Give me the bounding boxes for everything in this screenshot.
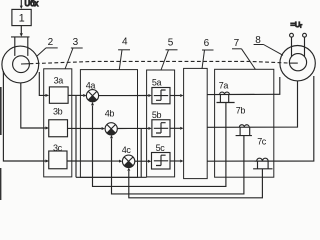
svg-text:7c: 7c — [257, 137, 267, 147]
group box 6 (amplifier) — [184, 68, 208, 178]
label 6 with leader — [202, 38, 214, 69]
svg-text:7: 7 — [234, 38, 240, 49]
feedback 7b to summer 4b — [110, 135, 244, 194]
machine 2 brush cap line — [11, 36, 30, 38]
wire block 6 to winding 7b and machine 8 centre lead — [207, 81, 297, 128]
winding 7a — [217, 80, 235, 102]
label 5 with leader — [161, 38, 178, 71]
svg-text:5b: 5b — [152, 110, 162, 120]
summer 4a — [86, 80, 99, 101]
branch wire from 3a output down — [75, 95, 77, 177]
machine 8 outer circle (generator) — [280, 46, 315, 81]
box 5b with relay symbol — [152, 110, 170, 137]
group box 7 (feedback windings) — [215, 69, 274, 177]
machine 8 brush leads — [292, 37, 305, 56]
winding 7c — [253, 137, 272, 169]
feedback 7c to summer 4c — [127, 168, 262, 198]
box 3a — [49, 76, 68, 104]
svg-text:5: 5 — [168, 38, 174, 49]
svg-text:4a: 4a — [86, 80, 96, 90]
wire 5b to block 6 — [170, 127, 184, 130]
group box 5 (relay elements) — [147, 70, 175, 177]
summer 4b — [105, 108, 117, 135]
svg-text:3c: 3c — [53, 143, 63, 153]
svg-text:5c: 5c — [156, 143, 166, 153]
wire summer 4c to 5c — [135, 160, 152, 163]
branch wire from 4b output down — [140, 128, 142, 177]
svg-text:5a: 5a — [152, 78, 162, 88]
svg-text:=Uг: =Uг — [291, 20, 303, 30]
wire summer 4a to 5a — [99, 94, 152, 97]
machine 2 inner circle (rotor) — [13, 56, 30, 73]
svg-text:7a: 7a — [219, 80, 229, 90]
svg-text:1: 1 — [19, 13, 25, 25]
svg-text:3b: 3b — [53, 106, 63, 116]
wire 3a to summer 4a — [68, 94, 87, 97]
box 3b — [49, 106, 68, 136]
machine 2 lead to 3a — [39, 72, 49, 97]
wire block 1 to machine 2 with arrow — [20, 26, 23, 37]
label 2 with leader — [37, 37, 58, 57]
box 5a with relay symbol — [152, 78, 170, 104]
wire 3b to summer 4b — [68, 127, 106, 130]
feedback 7a to summer 4a — [91, 102, 226, 186]
group box 4 (summing elements) — [80, 70, 137, 178]
machine 2 lead to 3c — [3, 71, 49, 163]
group box 3 (measuring elements) — [44, 69, 72, 177]
input Uбх label — [25, 0, 39, 8]
machine 8 inner circle (rotor) — [289, 54, 306, 71]
wire summer 4b to 5b — [117, 127, 152, 130]
winding 7b — [236, 105, 252, 135]
scan artifact strips on left edge — [0, 87, 2, 200]
label 7 with leader — [232, 38, 256, 70]
machine 2 brush leads — [15, 37, 28, 56]
block 1 (input setter) — [12, 9, 31, 25]
bridge wire along group bottoms — [76, 176, 147, 178]
label 3 with leader — [65, 37, 83, 69]
machine 8 output terminals — [290, 33, 307, 37]
output voltage label =Uг — [291, 20, 303, 30]
wire 5c to block 6 — [170, 160, 184, 163]
wire block 6 to winding 7a and machine 8 left lead — [207, 93, 274, 95]
svg-text:6: 6 — [204, 38, 210, 49]
svg-text:3a: 3a — [54, 76, 64, 86]
machine 2 lead to 3b — [21, 83, 49, 130]
svg-text:4c: 4c — [122, 145, 132, 155]
svg-text:2: 2 — [48, 37, 54, 48]
svg-text:4b: 4b — [105, 108, 115, 118]
svg-text:7b: 7b — [236, 105, 246, 115]
machine 8 left lead jog — [274, 77, 280, 94]
input wire with arrow into block 1 — [20, 0, 23, 9]
wire 5a to block 6 — [170, 94, 184, 97]
wire block 6 to winding 7c and machine 8 right lead — [207, 76, 314, 161]
box 5c with relay symbol — [152, 143, 171, 169]
summer 4c — [122, 145, 135, 168]
svg-text:4: 4 — [122, 37, 128, 48]
label 4 with leader — [118, 37, 130, 70]
label 8 with leader — [254, 35, 283, 55]
shaft dashed line between machine 2 and machine 8 — [21, 61, 298, 64]
machine 2 outer circle (drive motor) — [2, 46, 39, 83]
wire 3c to summer 4c — [67, 160, 122, 163]
svg-text:3: 3 — [73, 37, 79, 48]
box 3c — [49, 143, 67, 169]
svg-text:Uбх: Uбх — [25, 0, 39, 8]
